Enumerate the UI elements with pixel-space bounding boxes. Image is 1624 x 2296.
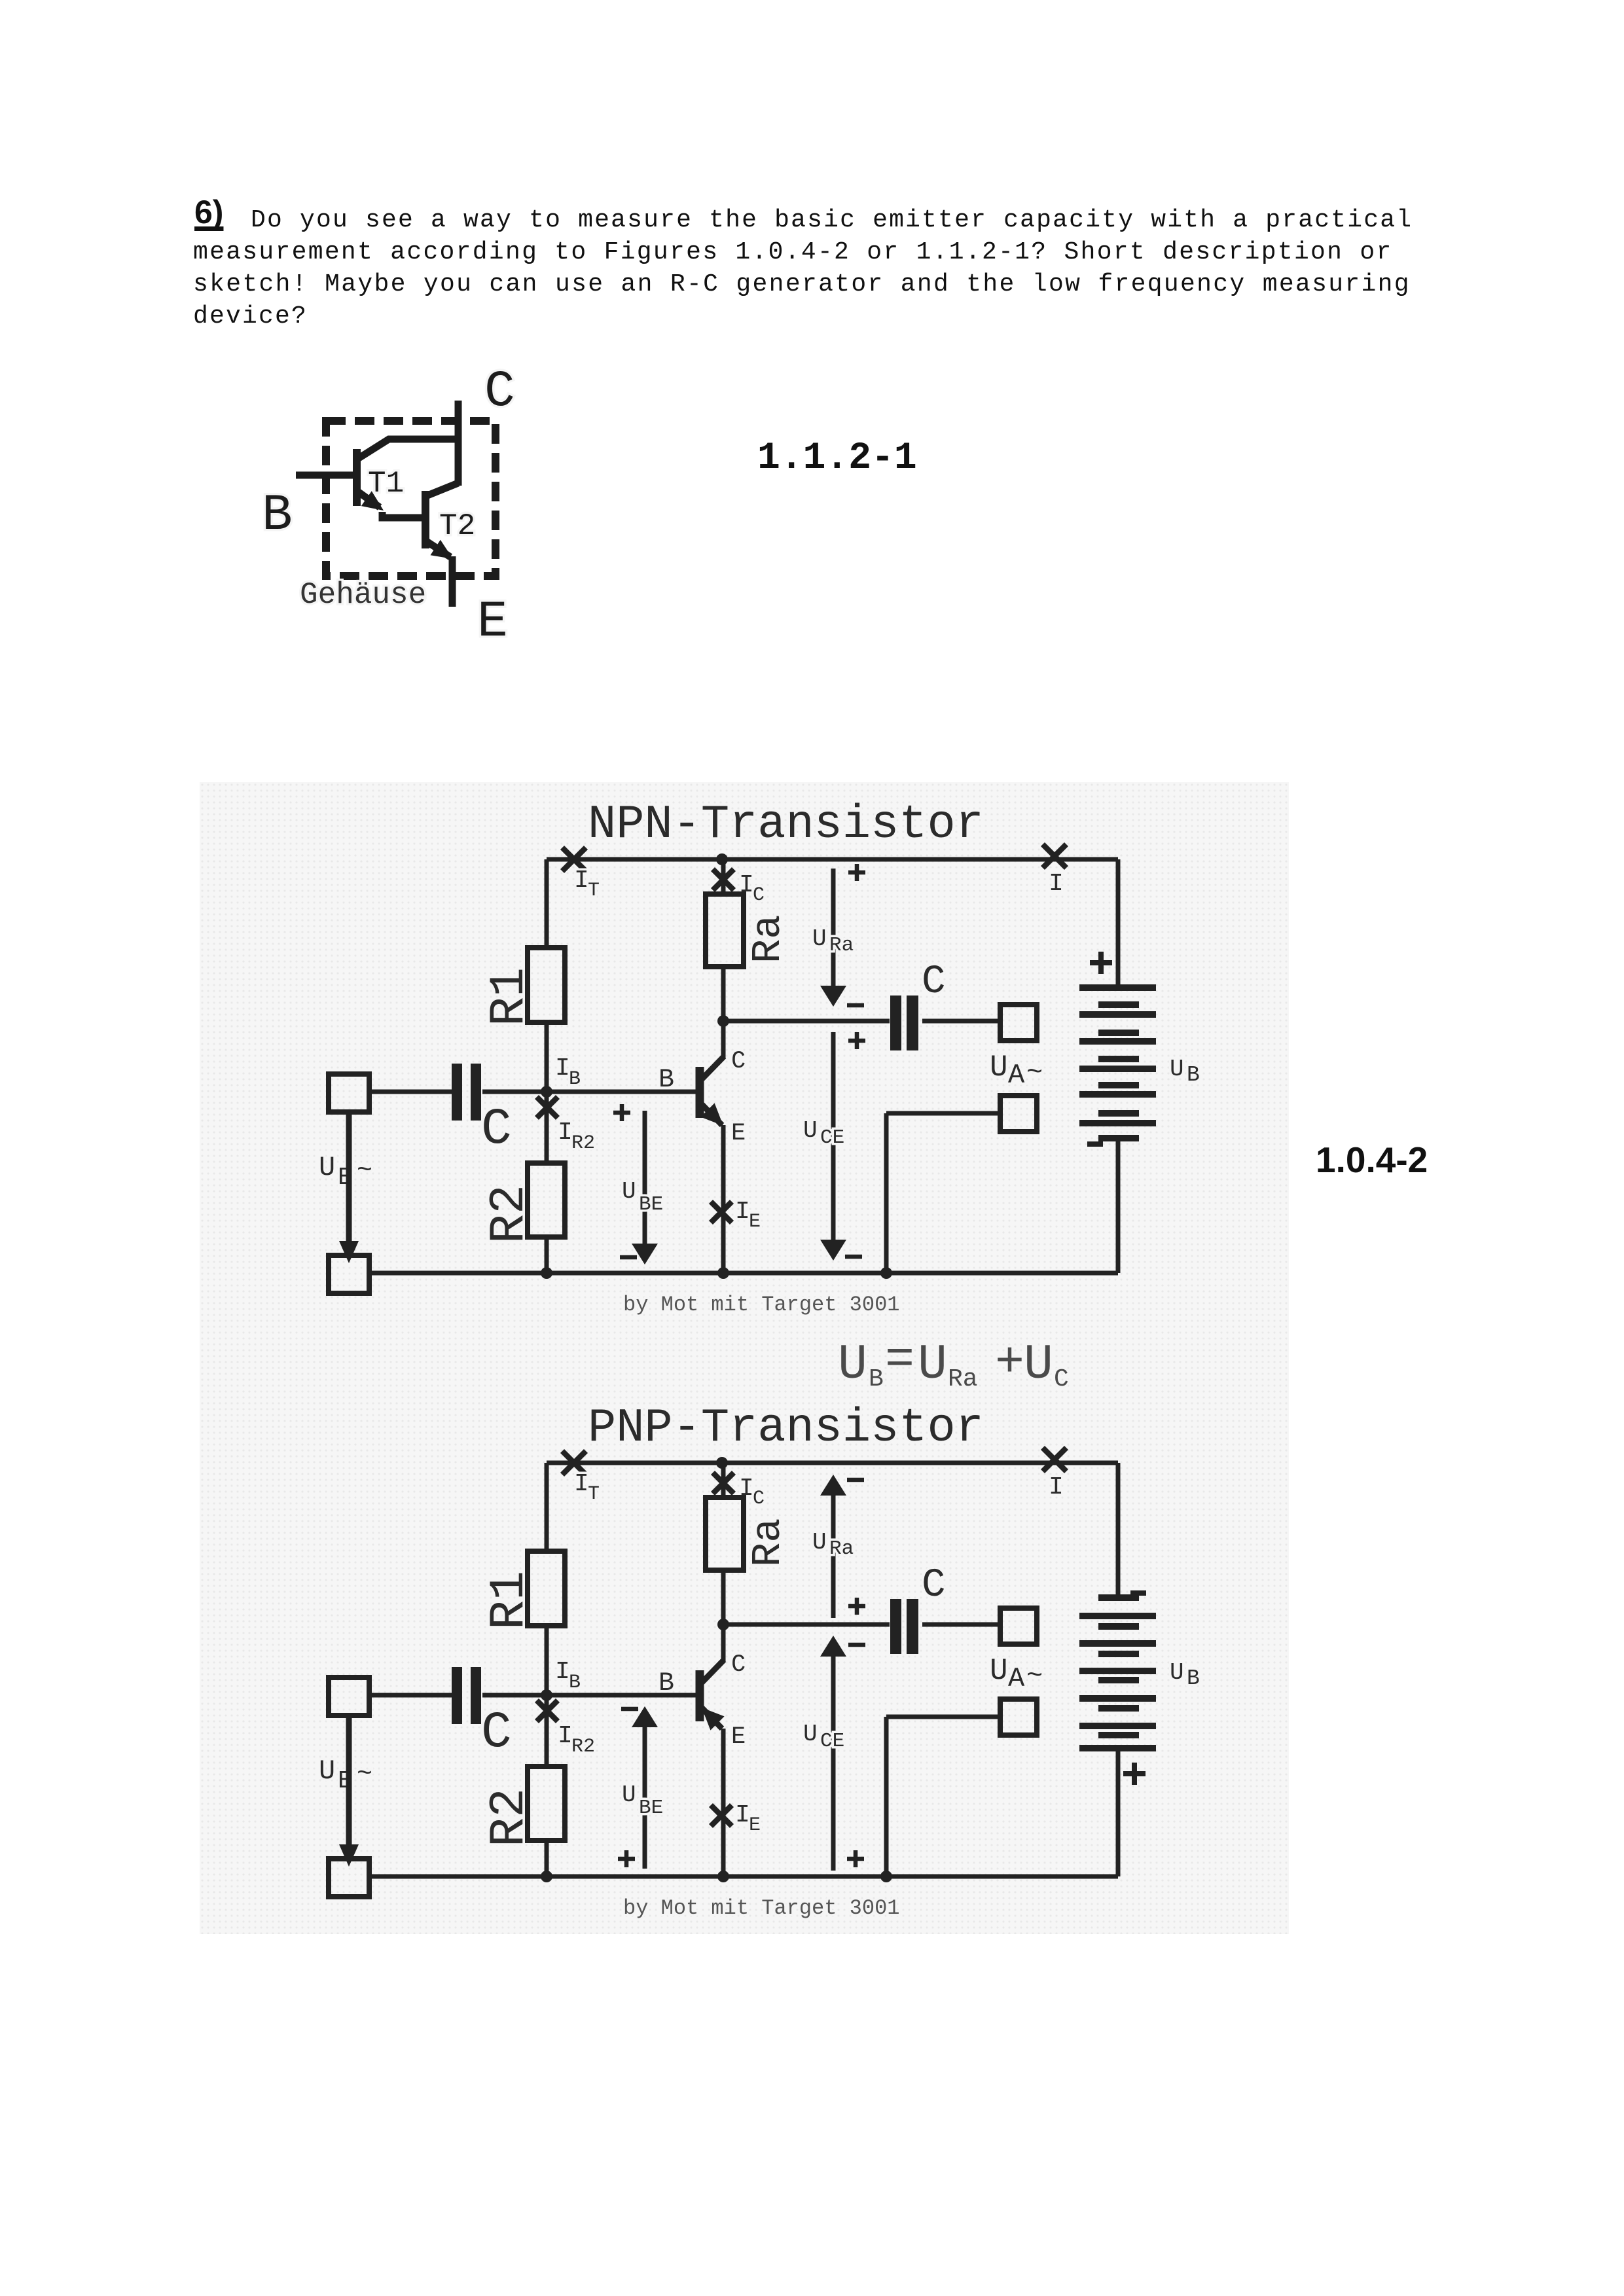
- svg-text:~: ~: [357, 1760, 372, 1789]
- svg-text:by Mot mit Target 3001: by Mot mit Target 3001: [623, 1896, 899, 1920]
- wire capacitor to base: [482, 1090, 696, 1094]
- svg-text:E: E: [749, 1211, 761, 1233]
- svg-text:R2: R2: [571, 1736, 595, 1758]
- figure label 1.0.4-2: [1316, 1142, 1428, 1178]
- arrow UE: [346, 1715, 352, 1847]
- node top-R1/Ra junction: [716, 1457, 728, 1469]
- svg-text:C: C: [922, 960, 946, 1005]
- node output-bottom junction: [880, 1267, 892, 1279]
- wire battery bottom lead: [1116, 1746, 1121, 1876]
- transistor collector stroke: [701, 1660, 724, 1683]
- wire Ra bottom lead: [721, 1570, 726, 1624]
- current cross IE: [711, 1202, 732, 1223]
- transistor T1 emitter: [359, 492, 380, 507]
- transistor T2 collector: [427, 483, 458, 495]
- current cross IR2: [537, 1700, 558, 1721]
- wire battery top lead: [1116, 1463, 1121, 1598]
- svg-text:I: I: [555, 1054, 570, 1083]
- wire R1 top lead: [545, 1463, 549, 1554]
- resistor Ra: [706, 1498, 744, 1570]
- arrow URa (down): [831, 869, 836, 990]
- svg-text:PNP-Transistor: PNP-Transistor: [588, 1401, 984, 1455]
- svg-text:CE: CE: [820, 1126, 844, 1149]
- transistor T1 base bar: [353, 449, 361, 506]
- wire top supply bus: [547, 1461, 1118, 1465]
- figure label 1.1.2-1: [757, 440, 917, 478]
- transistor base bar: [696, 1067, 704, 1118]
- svg-text:~: ~: [1026, 1057, 1043, 1088]
- wire capacitor to base: [482, 1693, 696, 1698]
- wire capacitor to output terminal: [922, 1019, 1000, 1024]
- halftone scan background: [200, 782, 1289, 1934]
- node base junction: [541, 1086, 552, 1098]
- svg-text:E: E: [749, 1814, 761, 1837]
- wire emitter lead: [721, 1125, 726, 1273]
- wire R2 bottom lead: [545, 1237, 549, 1273]
- plus sign UCE top: [848, 1032, 865, 1049]
- svg-text:Ra: Ra: [829, 934, 854, 957]
- svg-text:C: C: [484, 363, 515, 421]
- svg-text:U: U: [803, 1117, 818, 1144]
- svg-text:U: U: [990, 1654, 1008, 1688]
- wire capacitor to output terminal: [922, 1623, 1000, 1627]
- wire T1 emitter to T2 base: [382, 512, 422, 518]
- svg-text:T2: T2: [439, 509, 475, 543]
- wire battery top lead: [1116, 859, 1121, 986]
- svg-text:I: I: [574, 867, 589, 895]
- battery UB: [1079, 984, 1156, 991]
- current cross IR2: [537, 1097, 558, 1118]
- wire base to R2: [545, 1695, 549, 1767]
- minus sign UBE top: [621, 1707, 638, 1712]
- wire bottom return bus: [369, 1874, 1118, 1879]
- wire Ra top lead: [721, 1463, 726, 1498]
- resistor R2: [528, 1163, 565, 1237]
- svg-text:I: I: [735, 1198, 750, 1226]
- svg-text:Ra: Ra: [745, 915, 791, 963]
- svg-text:C: C: [731, 1651, 746, 1679]
- arrow UBE (up): [643, 1718, 647, 1869]
- svg-text:U: U: [803, 1721, 818, 1748]
- svg-text:Ra: Ra: [745, 1518, 791, 1567]
- svg-text:Gehäuse: Gehäuse: [300, 578, 426, 612]
- capacitor C output: [890, 1599, 901, 1654]
- heading number 6): [194, 196, 223, 228]
- plus sign UBE bottom: [618, 1850, 635, 1867]
- svg-text:B: B: [1187, 1666, 1200, 1691]
- wire collector to output capacitor: [723, 1623, 890, 1627]
- svg-text:U: U: [918, 1337, 947, 1393]
- svg-text:R1: R1: [482, 967, 537, 1026]
- svg-text:R1: R1: [482, 1571, 537, 1630]
- transistor base bar: [696, 1670, 704, 1721]
- wire R2 bottom lead: [545, 1840, 549, 1876]
- svg-text:R2: R2: [482, 1788, 537, 1847]
- resistor Ra: [706, 894, 744, 967]
- wire UA bottom to ground: [886, 1715, 1000, 1719]
- svg-text:CE: CE: [820, 1730, 844, 1753]
- svg-text:U: U: [838, 1337, 867, 1393]
- svg-text:B: B: [262, 487, 293, 545]
- svg-text:B: B: [869, 1365, 884, 1393]
- minus sign battery top: [1130, 1590, 1146, 1596]
- wire collector to output capacitor: [723, 1019, 890, 1024]
- node emitter-bottom junction: [717, 1267, 729, 1279]
- svg-text:E: E: [731, 1120, 746, 1147]
- transistor T2 base bar: [422, 491, 429, 548]
- wire collector lead: [721, 1021, 726, 1059]
- transistor collector stroke: [701, 1056, 724, 1080]
- svg-text:=: =: [885, 1333, 914, 1388]
- arrow UCE (up): [831, 1653, 836, 1871]
- plus sign battery top: [1090, 952, 1112, 974]
- capacitor C input: [452, 1064, 462, 1121]
- svg-text:I: I: [1049, 1473, 1064, 1501]
- case dashed box (Gehaeuse): [326, 421, 496, 576]
- wire input to capacitor: [369, 1693, 452, 1698]
- node base junction: [541, 1689, 552, 1701]
- svg-text:NPN-Transistor: NPN-Transistor: [588, 798, 984, 852]
- svg-text:R2: R2: [482, 1185, 537, 1244]
- svg-text:Ra: Ra: [829, 1537, 854, 1560]
- svg-text:T: T: [588, 880, 600, 902]
- svg-text:A: A: [1008, 1060, 1025, 1091]
- arrow UE: [346, 1112, 352, 1244]
- node output-bottom junction: [880, 1871, 892, 1882]
- svg-text:U: U: [1170, 1659, 1184, 1686]
- wire R1 bottom lead: [545, 1626, 549, 1695]
- wire R1 bottom lead: [545, 1022, 549, 1092]
- svg-text:I: I: [574, 1470, 589, 1498]
- current cross I (battery): [1043, 1448, 1066, 1471]
- svg-text:R2: R2: [571, 1132, 595, 1155]
- terminal box UA bottom: [1000, 1096, 1037, 1132]
- current cross IT: [562, 848, 586, 871]
- svg-text:+: +: [995, 1335, 1024, 1391]
- resistor R2: [528, 1767, 565, 1840]
- wire collector lead: [721, 1624, 726, 1662]
- wire Ra top lead: [721, 859, 726, 894]
- svg-text:BE: BE: [639, 1797, 663, 1820]
- capacitor C output: [890, 996, 901, 1050]
- svg-text:T: T: [588, 1483, 600, 1505]
- svg-text:B: B: [659, 1066, 674, 1095]
- transistor T2 emitter: [427, 542, 450, 557]
- svg-text:U: U: [1170, 1056, 1184, 1083]
- svg-text:I: I: [558, 1722, 573, 1750]
- svg-text:A: A: [1008, 1663, 1025, 1695]
- svg-text:C: C: [753, 1488, 765, 1510]
- svg-text:U: U: [622, 1178, 636, 1205]
- wire collector lead C: [455, 401, 462, 486]
- svg-text:U: U: [812, 1529, 827, 1556]
- wire input to capacitor: [369, 1090, 452, 1094]
- minus sign URa bottom: [847, 1003, 864, 1008]
- battery UB: [1098, 1594, 1139, 1601]
- svg-text:C: C: [481, 1101, 512, 1158]
- current cross IT: [562, 1451, 586, 1475]
- current cross IE: [711, 1805, 732, 1826]
- wire bottom return bus: [369, 1271, 1118, 1276]
- svg-text:C: C: [753, 884, 765, 906]
- svg-text:B: B: [569, 1672, 581, 1694]
- svg-text:~: ~: [1026, 1660, 1043, 1692]
- current cross I (battery): [1043, 844, 1066, 868]
- plus sign UBE top: [613, 1104, 630, 1121]
- svg-text:by Mot mit Target 3001: by Mot mit Target 3001: [623, 1293, 899, 1317]
- svg-text:C: C: [481, 1704, 512, 1762]
- svg-text:B: B: [1187, 1063, 1200, 1087]
- svg-text:B: B: [569, 1068, 581, 1090]
- wire emitter lead: [721, 1729, 726, 1876]
- minus sign UCE top: [848, 1643, 865, 1647]
- svg-text:U: U: [990, 1050, 1008, 1085]
- current cross IC: [713, 1473, 734, 1494]
- wire top supply bus: [547, 857, 1118, 862]
- transistor emitter stroke: [701, 1103, 722, 1125]
- wire base lead B: [296, 472, 353, 479]
- plus sign URa top: [848, 864, 865, 881]
- plus sign UCE bottom: [847, 1850, 864, 1867]
- terminal box UA top: [1000, 1005, 1037, 1041]
- plus sign battery bottom: [1123, 1763, 1146, 1785]
- transistor emitter stroke: [701, 1707, 722, 1729]
- svg-text:T1: T1: [368, 467, 404, 501]
- svg-text:U: U: [319, 1755, 335, 1787]
- minus sign URa top: [847, 1478, 864, 1482]
- svg-text:C: C: [1054, 1365, 1069, 1393]
- node collector junction: [717, 1015, 729, 1027]
- terminal box UE bottom: [329, 1255, 369, 1293]
- node emitter-bottom junction: [717, 1871, 729, 1882]
- svg-text:U: U: [812, 925, 827, 952]
- terminal box UE top: [329, 1074, 369, 1112]
- wire battery bottom lead: [1116, 1140, 1121, 1273]
- emitter arrow (inward, PNP): [702, 1708, 725, 1731]
- wire UA bottom to ground: [886, 1111, 1000, 1116]
- svg-text:C: C: [731, 1048, 746, 1075]
- wire base to R2: [545, 1092, 549, 1163]
- svg-text:~: ~: [357, 1157, 372, 1186]
- paragraph 6) question text: [251, 204, 1413, 236]
- arrow UCE (down): [831, 1032, 836, 1244]
- svg-text:U: U: [1024, 1337, 1053, 1393]
- node collector junction: [717, 1619, 729, 1630]
- transistor T1 collector: [359, 439, 458, 458]
- svg-text:I: I: [555, 1658, 570, 1686]
- svg-text:I: I: [735, 1801, 750, 1829]
- svg-text:E: E: [731, 1723, 746, 1751]
- terminal box UE bottom: [329, 1859, 369, 1897]
- minus sign battery bottom: [1087, 1141, 1103, 1147]
- svg-text:C: C: [922, 1563, 946, 1608]
- node R2-bottom junction: [541, 1871, 552, 1882]
- svg-text:I: I: [558, 1119, 573, 1147]
- terminal box UE top: [329, 1677, 369, 1715]
- svg-text:U: U: [622, 1782, 636, 1808]
- svg-text:B: B: [659, 1669, 674, 1698]
- svg-text:E: E: [477, 594, 508, 651]
- terminal box UA bottom: [1000, 1699, 1037, 1735]
- minus sign UCE bottom: [845, 1255, 862, 1259]
- emitter arrow (outward, NPN): [700, 1103, 723, 1126]
- svg-text:Ra: Ra: [948, 1365, 978, 1393]
- arrow URa (up): [831, 1492, 836, 1618]
- svg-text:U: U: [319, 1152, 335, 1183]
- resistor R1: [528, 1551, 565, 1626]
- minus sign UBE bottom: [620, 1255, 637, 1260]
- plus sign URa bottom: [848, 1598, 865, 1615]
- wire emitter lead E: [449, 556, 456, 607]
- capacitor C input: [452, 1667, 462, 1724]
- resistor R1: [528, 948, 565, 1022]
- wire Ra bottom lead: [721, 967, 726, 1021]
- node R2-bottom junction: [541, 1267, 552, 1279]
- current cross IC: [713, 869, 734, 890]
- svg-text:BE: BE: [639, 1193, 663, 1216]
- node top-R1/Ra junction: [716, 853, 728, 865]
- wire R1 top lead: [545, 859, 549, 950]
- terminal box UA top: [1000, 1608, 1037, 1644]
- arrow UBE (down): [643, 1111, 647, 1247]
- svg-text:I: I: [1049, 870, 1064, 898]
